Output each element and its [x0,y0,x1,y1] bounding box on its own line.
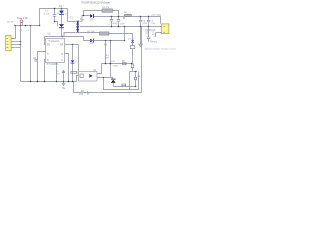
svg-text:TNY268P 230VAC 12V 1A Charger: TNY268P 230VAC 12V 1A Charger [81,0,110,4]
wire EN left vertical [45,37,46,45]
inductor L2 [124,14,131,16]
svg-text:0.1uF: 0.1uF [44,13,50,15]
transformer T1 [76,21,79,33]
diode D6 [90,39,94,43]
wire opto emitter to TL431 [97,78,113,79]
wire sense drop x105.5 [105,41,107,64]
capacitor C6 plates [147,37,150,38]
node dot J1 pin2 [20,41,21,42]
svg-text:400V: 400V [112,23,118,25]
wire output rail [94,16,161,18]
wire output rail corner to J2 [160,17,162,24]
wire J1 pin4 [11,47,20,49]
wire bridge out to T1 [68,9,76,22]
node dot bus x63.5 [63,81,64,82]
wire J1 pin2 [11,41,20,43]
wire IC bottom to bus [56,63,58,82]
ground symbol [62,82,66,86]
svg-text:470u: 470u [143,23,147,25]
diode D2 [59,24,64,28]
connector J1 pin slots [6,38,8,48]
node dot return C5 [148,26,149,27]
wire J1 pin1 [11,26,15,39]
node dot AC-2 [20,25,21,26]
node dot AC-3 [25,25,26,26]
node dot return x124 [124,26,125,27]
fuse F1 left leg [20,23,22,26]
wire feedback y86.5 [113,86,135,88]
wire secondary bottom to R2 [79,32,99,34]
node dot rail C3 [118,16,119,17]
wire R7 down [132,49,134,65]
wire secondary top [79,16,90,22]
svg-text:BP: BP [60,45,64,47]
capacitor C4 [139,17,142,27]
node dot rail-C1 [54,8,55,9]
svg-text:+12V Output: +12V Output [151,13,161,16]
wire x129.5 down [129,72,131,90]
wire C1 bottom [55,22,58,26]
wire vertical x72.5 [72,45,74,61]
node dot AC-4 [30,25,31,26]
wire fused line to bridge [40,9,56,26]
wire neutral vertical [20,26,22,82]
wire divider corner y71.5 [130,71,138,73]
node dot bias x110.5 [110,40,111,41]
svg-text:Fuse 2.0A: Fuse 2.0A [17,17,28,20]
node dot bus x30.5 [30,81,31,82]
node dot rail C4 [140,16,141,17]
node dot return C2 [111,26,112,27]
wire feedback y89.5 [104,72,139,90]
node dot return C4 [140,26,141,27]
wire IC pin left y59.5 [45,60,46,82]
connector J1 [6,35,12,51]
node dot sense x110.5 [110,63,111,64]
wire R6 stub top [135,72,137,78]
node dot bus x68.5 [68,81,69,82]
wire bias corner down [83,37,85,41]
svg-text:10n: 10n [56,73,59,75]
wire gnd drop x140.5 [140,27,142,44]
svg-text:25V: 25V [145,31,150,34]
node dot snubber [83,15,84,16]
svg-text:PE: PE [62,88,66,90]
svg-text:Return: Return [150,41,158,44]
ground symbol secondary [138,44,143,46]
wire C6 below [148,39,150,42]
wire D2 bottom [61,28,63,36]
wire zener to bus [72,64,74,82]
optocoupler U2 box [79,72,98,82]
node dot D2 bottom [62,36,63,37]
svg-text:TinySwitch: TinySwitch [48,40,60,43]
resistor R6 box [134,77,136,80]
IC U1 box [46,39,65,63]
wire bias line [45,36,84,38]
node dot J1 pin3 [20,44,21,45]
wire R6 stub bottom [135,80,137,87]
diode D5 [90,14,94,18]
resistor R7 box [130,46,135,49]
svg-text:EN: EN [47,45,51,47]
wire stub x148.5 below rail [148,27,150,37]
diode D1 [59,11,64,15]
svg-text:Optional Zener Clamp Circuit: Optional Zener Clamp Circuit [145,48,176,51]
node dot AC-5 [39,25,40,26]
capacitor C10 box [71,71,77,73]
wire IC pin BP right [65,44,79,46]
wire D1-D2 link [61,15,63,24]
resistor R5 box [123,63,127,65]
node dot bus x56.5 [56,81,57,82]
resistor R9 box [122,84,126,86]
fuse F1 [20,20,23,23]
wire D7 to R7 [132,43,134,46]
wire J2 pin2 [156,32,162,34]
node dot sense x131.5 [131,63,132,64]
node dot fb x135.5 [135,86,136,87]
resistor R2 [100,32,110,35]
wire D1 top stub [61,9,63,11]
node dot sense x105.5 [105,63,106,64]
polarity ring C3 [123,17,125,19]
node dot bus x37.5 [37,81,38,82]
wire snubber corner [84,11,103,16]
capacitor C3 [117,17,120,27]
capacitor C9 plates [62,71,65,72]
wire J1 pin3 [11,44,20,46]
svg-text:100n: 100n [152,34,156,36]
fuse F1 right leg [21,23,23,26]
opto transistor blue [89,74,92,78]
wire primary ground bus [21,81,77,83]
wire opto collector up [97,64,102,74]
capacitor C1 [53,9,57,22]
node dot divider x135.5 [135,71,136,72]
wire IC pin left y52 [38,52,46,82]
node dot bus x72.5 [72,81,73,82]
wire bias rail y40.5 [84,40,125,42]
wire vertical x78.5 [78,45,80,72]
wire secondary return rail [80,26,162,28]
svg-text:AC IN: AC IN [7,21,13,24]
wire bridge top rail [55,8,68,10]
wire sense rail y63.5 [102,63,132,65]
node dot BP wire [72,44,73,45]
node dot C1 bottom [54,21,55,22]
zener VR1 [71,60,75,63]
wire bus corner to opto [77,76,79,82]
wire feedback y92.5 [74,27,142,93]
node dot opto emitter [103,77,104,78]
wire IC pin right y53.5 [65,54,69,82]
wire R10 down [132,68,134,72]
node dot bias x105.5 [105,40,106,41]
node dot bus x44.5 [44,81,45,82]
svg-text:470u: 470u [151,23,155,25]
capacitor C2 [110,17,113,27]
transformer phasing dots [79,18,82,21]
capacitor C8 plates [34,60,37,61]
wire drop x110.5 [110,41,112,78]
svg-text:D7 5.1: D7 5.1 [128,38,135,40]
TL431 U3 [111,79,116,83]
zener D7 [131,40,134,43]
wire J2 pin2 drop [155,33,156,37]
node dot rail C2 [111,16,112,17]
wire cap x63.5 vertical [63,70,65,82]
opto LED part [80,74,83,78]
wire x124.5 link [124,27,126,41]
svg-text:TL431: TL431 [113,66,120,68]
node dot AC-1 [14,25,15,26]
wire AC line [15,25,40,27]
tick on fb line [86,91,88,93]
node dot return C3 [118,26,119,27]
wire R1 to rail [113,11,119,17]
node dot rail C5 [148,16,149,17]
capacitor C5 [147,17,150,27]
connector J2 [162,24,169,34]
wire line vertical [30,26,32,82]
resistor R10 box [131,64,134,68]
node dot rail-D1 [61,8,62,9]
wire primary bottom [64,33,76,37]
svg-text:R2 100: R2 100 [88,31,96,33]
connector J2 pin slots [163,26,165,33]
wire R2 out to divider [109,34,133,41]
resistor R1 [102,9,113,12]
node dot bias x124.5 [124,40,125,41]
wire TL431 anode down [112,83,114,87]
svg-text:400V: 400V [120,24,126,26]
